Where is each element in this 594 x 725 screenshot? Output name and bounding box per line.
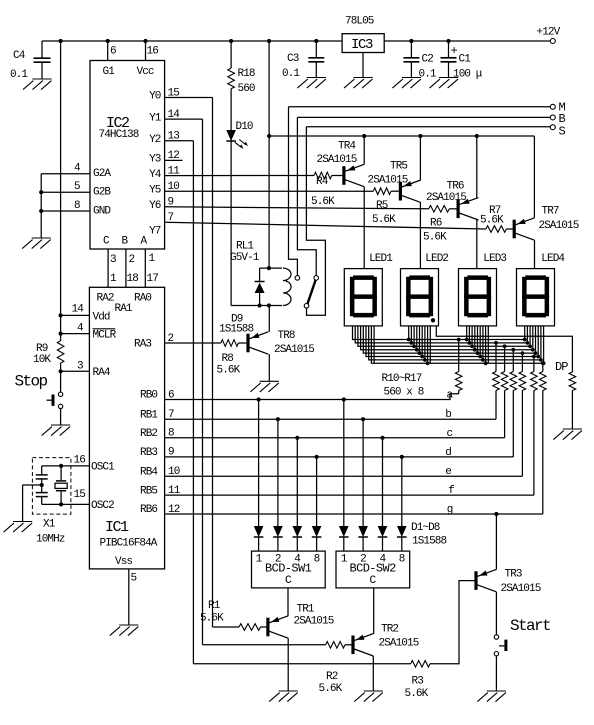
node TR6 emitter rail (475, 134, 479, 138)
wire +12V to relay coil (268, 41, 270, 268)
resistor R16 (g) 560 (540, 372, 547, 391)
capacitor C1 100u electrolytic (448, 41, 450, 58)
wire IC2B to RA1 (125, 249, 127, 287)
svg-text:74HC138: 74HC138 (99, 129, 139, 141)
node LED3 pin5 (476, 351, 480, 355)
wire RB5 segment line f (165, 494, 534, 496)
svg-text:16: 16 (74, 455, 86, 467)
svg-text:0.1: 0.1 (282, 68, 300, 80)
wire segment bus line 6 (366, 326, 538, 357)
wire segment bus line 7 (369, 326, 541, 360)
svg-text:5: 5 (131, 573, 137, 585)
wire TR1 collector (287, 638, 289, 691)
wire B drop (297, 117, 316, 275)
svg-text:RB1: RB1 (140, 409, 158, 421)
wire Y1 pin14 (165, 118, 203, 120)
svg-text:D1~D8: D1~D8 (411, 522, 440, 534)
svg-text:RB2: RB2 (140, 428, 157, 440)
node LED2 pin4 (415, 348, 419, 352)
svg-text:R18: R18 (238, 68, 255, 80)
wire R15 column upper (533, 357, 535, 372)
node LED2 pin7 (423, 358, 427, 362)
wire IC2C to RA2 (107, 249, 109, 287)
node D4 tap (315, 455, 319, 459)
wire D6 column (362, 419, 364, 526)
node D8 tap (400, 455, 404, 459)
display LED1 7-segment (344, 269, 382, 326)
transistor TR3 2SA1015 (474, 571, 477, 590)
wire IC2A to RA0 (144, 249, 146, 287)
svg-text:100 μ: 100 μ (453, 69, 483, 81)
svg-text:18: 18 (127, 273, 139, 285)
display LED4 7-segment (517, 269, 555, 326)
node rail-C3 (314, 39, 318, 43)
wire R8 to TR8 (238, 342, 246, 344)
wire R13 column lower (512, 391, 514, 457)
switch Stop (58, 392, 62, 396)
node osc caps mid (40, 483, 44, 487)
wire rail to TR7 emitter (533, 136, 535, 218)
wire R12 column lower (504, 391, 506, 438)
svg-text:G5V-1: G5V-1 (230, 252, 260, 264)
svg-text:LED2: LED2 (425, 253, 448, 265)
svg-text:G2B: G2B (93, 187, 111, 199)
svg-text:D10: D10 (236, 121, 253, 133)
wire TR4 collector to LED1 (363, 187, 365, 269)
svg-text:R2: R2 (326, 671, 338, 683)
node rail-A (59, 39, 63, 43)
wire D6 to switch (362, 537, 364, 551)
node LED4 pin5 (534, 351, 538, 355)
wire D2 to switch (277, 537, 279, 551)
wire segment bus line 1 (353, 326, 525, 340)
diode D4 1S1588 (312, 526, 322, 537)
wire R6 to TR6 (449, 208, 456, 210)
ground (IC2 enables) (22, 238, 51, 249)
node LED3 pin3 (470, 344, 474, 348)
wire R5 to TR5 (391, 190, 399, 192)
resistor R10 (a) 560 (455, 372, 462, 391)
wire R10 column upper (458, 340, 460, 372)
wire R2 line (203, 644, 326, 646)
svg-text:0.1: 0.1 (10, 69, 28, 81)
node GND (39, 209, 43, 213)
svg-text:TR3: TR3 (505, 568, 522, 580)
svg-text:8: 8 (74, 200, 80, 212)
svg-text:LED4: LED4 (541, 253, 565, 265)
svg-text:TR7: TR7 (542, 206, 559, 218)
svg-text:8: 8 (314, 554, 320, 566)
transistor TR6 2SA1015 (457, 200, 460, 219)
IC2 74HC138 body (90, 61, 165, 250)
node LED3 pin8 (484, 361, 488, 365)
svg-text:Y1: Y1 (149, 112, 162, 124)
resistor R3 5.6K (411, 661, 430, 668)
svg-text:10K: 10K (33, 354, 51, 366)
resistor R7 (486, 226, 507, 233)
svg-text:16: 16 (147, 46, 159, 58)
wire TR6 collector to LED3 (476, 220, 478, 269)
svg-text:BCD-SW2: BCD-SW2 (350, 561, 397, 575)
diode D10 LED (226, 130, 236, 141)
svg-text:+12V: +12V (537, 27, 561, 39)
svg-text:X1: X1 (43, 518, 56, 530)
ground (X1) (4, 522, 33, 533)
node LED2 pin1 (407, 338, 411, 342)
svg-text:2: 2 (129, 254, 135, 266)
svg-text:17: 17 (147, 273, 159, 285)
node rail-G1 (106, 39, 110, 43)
svg-text:RB0: RB0 (140, 390, 157, 402)
node LED3 pin7 (481, 358, 485, 362)
wire D7 to switch (382, 537, 384, 551)
wire Stop to ground (60, 409, 62, 425)
svg-text:R10~R17: R10~R17 (382, 373, 422, 385)
node D1 tap (257, 397, 261, 401)
ground (C3) (297, 78, 326, 89)
wire G2B (41, 191, 90, 193)
svg-text:TR5: TR5 (390, 161, 407, 173)
svg-text:2SA1015: 2SA1015 (274, 344, 314, 356)
resistor R18 560 (230, 41, 232, 68)
resistor R12 (c) 560 (501, 372, 508, 391)
terminal B (550, 115, 555, 120)
wire OSC1 (42, 465, 90, 467)
node LED4 pin3 (528, 344, 532, 348)
svg-text:5.6K: 5.6K (480, 215, 504, 227)
transistor TR1 2SA1015 (266, 618, 269, 637)
node D3 tap (295, 436, 299, 440)
wire LED3 pin2 drop (468, 326, 470, 343)
wire SW2 common (373, 588, 375, 634)
diode D1 1S1588 (254, 526, 264, 537)
wire R10 column lower (458, 391, 460, 394)
ground (Vss) (110, 625, 139, 636)
wire LED3 pin5 drop (477, 326, 479, 353)
capacitor osc lower (41, 485, 43, 493)
ground (TR8) (250, 381, 279, 392)
node g TR3 emitter (494, 512, 498, 516)
wire R14 column lower (521, 391, 523, 477)
svg-text:5.6K: 5.6K (372, 214, 396, 226)
wire TR2 collector (372, 656, 374, 691)
wire LED4 pin6 drop (537, 326, 539, 357)
diode D3 1S1588 (293, 526, 303, 537)
svg-text:Y6: Y6 (149, 200, 161, 212)
resistor R11 (b) 560 (493, 372, 500, 391)
IC1 PIC16F84A body (89, 287, 164, 569)
wire G2A (41, 173, 90, 175)
wire LED2 pin2 drop (410, 326, 412, 343)
wire Y5 pin10 to R5 (165, 190, 374, 192)
svg-text:RB5: RB5 (140, 485, 157, 497)
svg-text:5.6K: 5.6K (405, 688, 429, 700)
wire OSC2 (42, 503, 90, 505)
resistor R4 (314, 172, 332, 179)
wire LED2 pin8 drop (427, 326, 429, 363)
contact circle M (295, 276, 300, 281)
svg-text:+: + (451, 44, 458, 58)
wire R1 to TR1 (261, 626, 267, 628)
wire Y0 vertical (212, 98, 214, 628)
svg-text:f: f (448, 485, 454, 497)
svg-text:3: 3 (110, 254, 116, 266)
wire LED1 pin9 (373, 326, 375, 363)
regulator IC3 78L05 (342, 34, 384, 53)
svg-text:GND: GND (93, 205, 111, 217)
wire Vdd (61, 314, 90, 316)
node LED2 pin5 (418, 351, 422, 355)
wire Y3 stub pin12 (165, 159, 183, 161)
svg-text:e: e (445, 466, 451, 478)
wire LED2 pin4 drop (416, 326, 418, 350)
node coil bottom (267, 303, 271, 307)
wire LED3 pin4 drop (474, 326, 476, 350)
wire RA4 (61, 370, 90, 372)
svg-text:G1: G1 (103, 66, 116, 78)
node R14 e tap (521, 351, 525, 355)
wire LED4 pin2 drop (526, 326, 528, 343)
wire Y6 pin9 to R6 (165, 207, 429, 209)
svg-text:G2A: G2A (93, 168, 111, 180)
node LED3 pin4 (473, 348, 477, 352)
svg-text:g: g (447, 504, 453, 516)
svg-text:d: d (445, 447, 451, 459)
wire TR8 collector to ground (268, 354, 270, 381)
wire R11 column upper (495, 343, 497, 372)
switch Start (494, 635, 498, 639)
wire B line (297, 116, 550, 118)
wire S drop (306, 127, 325, 315)
svg-text:R3: R3 (412, 676, 424, 688)
wire D10 to relay frame (230, 140, 232, 306)
resistor R13 (d) 560 (510, 372, 517, 391)
svg-text:RB3: RB3 (140, 447, 157, 459)
svg-text:560 x 8: 560 x 8 (384, 387, 424, 399)
resistor R9 10K (57, 341, 64, 363)
svg-text:RB4: RB4 (140, 466, 158, 478)
svg-text:2SA1015: 2SA1015 (368, 174, 408, 186)
wire D4 to switch (316, 537, 318, 551)
crystal X1 box dashed (32, 458, 71, 514)
svg-text:TR1: TR1 (297, 604, 315, 616)
svg-text:OSC2: OSC2 (91, 500, 114, 512)
transistor TR2 2SA1015 (351, 636, 354, 655)
wire Vss pin5 (128, 569, 130, 625)
ground (C4) (23, 79, 52, 90)
svg-text:5.6K: 5.6K (311, 196, 335, 208)
svg-text:RL1: RL1 (236, 240, 254, 252)
LED D10 light arrows (235, 142, 242, 147)
wire segment bus line 5 (363, 326, 535, 353)
wire left vdd vertical (60, 41, 62, 341)
svg-text:10MHz: 10MHz (36, 533, 65, 545)
wire RB6 segment line g (165, 513, 543, 515)
svg-text:R8: R8 (222, 353, 234, 365)
svg-text:78L05: 78L05 (345, 16, 374, 28)
wire TR3 collector down (495, 592, 497, 635)
node crystal bottom (59, 502, 63, 506)
wire IC3 gnd pin (362, 53, 364, 78)
resistor R6 (429, 206, 450, 213)
wire LED4 pin7 drop (540, 326, 542, 360)
wire LED2 pin6 drop (421, 326, 423, 357)
wire osc gnd (23, 484, 42, 486)
svg-text:Y4: Y4 (149, 169, 162, 181)
node TR4 emitter rail (362, 134, 366, 138)
ground (TR1) (269, 691, 298, 702)
svg-text:2SA1015: 2SA1015 (539, 220, 579, 232)
svg-text:Start: Start (510, 617, 550, 635)
diode D2 1S1588 (273, 526, 283, 537)
wire IC2 pin16 Vcc (145, 41, 147, 61)
node R15 f tap (532, 355, 536, 359)
node D5 tap (342, 397, 346, 401)
svg-text:0.1: 0.1 (419, 69, 437, 81)
wire segment bus line 2 (355, 326, 527, 343)
wire Y1 vertical (202, 119, 204, 645)
wire D1 column (258, 400, 260, 527)
node G2B (39, 190, 43, 194)
wire D2 column (277, 419, 279, 526)
node R12 c tap (503, 344, 507, 348)
node Vdd (59, 313, 63, 317)
node LED4 pin4 (531, 348, 535, 352)
wire LED3 pin9 (487, 326, 489, 363)
wire DP to ground (571, 391, 573, 430)
capacitor osc upper (41, 466, 43, 475)
wire +12V top rail (right of IC3) (384, 40, 550, 42)
contact circle arm top (314, 276, 319, 281)
svg-text:6: 6 (110, 46, 116, 58)
diode D7 1S1588 (378, 526, 388, 537)
wire LED2 pin5 drop (419, 326, 421, 353)
switch BCD-SW1 body (252, 551, 326, 588)
wire SW1 common (287, 588, 289, 616)
display LED2 7-segment (401, 269, 439, 326)
transistor TR7 2SA1015 (513, 220, 516, 239)
wire D5 column (343, 400, 345, 527)
resistor R15 (f) 560 (531, 372, 538, 391)
node rail-C2 (409, 39, 413, 43)
terminal S (550, 125, 555, 130)
wire MCLR (61, 333, 90, 335)
svg-text:LED3: LED3 (483, 253, 506, 265)
svg-text:OSC1: OSC1 (91, 462, 115, 474)
svg-text:Y0: Y0 (149, 91, 161, 103)
node LED3 pin2 (468, 341, 472, 345)
wire D7 column (382, 438, 384, 526)
capacitor C3 (315, 41, 317, 58)
svg-text:15: 15 (74, 489, 86, 501)
svg-text:C3: C3 (287, 53, 299, 65)
wire LED3 pin6 drop (479, 326, 481, 357)
wire TR4 emitter up (363, 136, 365, 164)
wire R13 column upper (512, 350, 514, 372)
node D9 bottom (258, 303, 262, 307)
svg-text:5.6K: 5.6K (217, 365, 241, 377)
wire GND pin (41, 210, 90, 212)
svg-text:2SA1015: 2SA1015 (294, 616, 334, 628)
wire Y0 pin15 (165, 97, 213, 99)
wire R7 to TR7 (506, 228, 512, 230)
wire RB0 segment line a (165, 394, 459, 400)
node relay top (267, 266, 271, 270)
svg-text:2: 2 (168, 333, 174, 345)
node LED2 pin8 (426, 361, 430, 365)
wire Y7 pin7 to R7 (165, 222, 486, 229)
node LED4 pin1 (523, 338, 527, 342)
svg-text:R1: R1 (208, 600, 221, 612)
capacitor C2 (410, 41, 412, 58)
wire R9 to RA4 (60, 363, 62, 392)
wire segment bus line 8 (371, 326, 543, 363)
wire RB1 segment line b (165, 418, 496, 420)
terminal +12V (550, 39, 555, 44)
wire RB4 segment line e (165, 475, 523, 477)
wire TR3 emitter up (495, 514, 497, 570)
svg-text:R4: R4 (316, 176, 329, 188)
wire Y2 vertical (192, 141, 194, 664)
svg-text:RA4: RA4 (93, 367, 111, 379)
node RA4 (59, 369, 63, 373)
relay switch arm (308, 280, 316, 304)
svg-text:2SA1015: 2SA1015 (426, 192, 466, 204)
resistor R14 (e) 560 (519, 372, 526, 391)
wire Start to ground (495, 656, 497, 691)
resistor R17 DP 560 (569, 372, 576, 391)
contact circle common (304, 304, 309, 309)
svg-text:RA3: RA3 (134, 339, 151, 351)
wire LED2 pin9 (429, 326, 431, 363)
node LED2 pin6 (420, 355, 424, 359)
transistor TR5 2SA1015 (399, 182, 402, 201)
node LED4 pin6 (536, 355, 540, 359)
wire relay top (260, 267, 282, 269)
LED2 decimal point (431, 318, 435, 322)
wire LED2 pin1 drop (408, 326, 410, 340)
svg-text:RA1: RA1 (115, 303, 133, 315)
ground (Start) (477, 691, 506, 702)
ground (Stop) (42, 425, 71, 436)
svg-text:LED1: LED1 (369, 253, 393, 265)
wire LED3 pin3 drop (471, 326, 473, 346)
svg-text:5.6K: 5.6K (423, 232, 447, 244)
svg-text:C2: C2 (422, 54, 434, 66)
node LED4 pin8 (542, 361, 546, 365)
wire LED2 pin7 drop (424, 326, 426, 360)
wire Y2 pin13 (165, 140, 194, 142)
svg-text:R5: R5 (376, 200, 388, 212)
node LED2 pin2 (410, 341, 414, 345)
wire TR8 emitter to relay (268, 306, 270, 332)
wire TR5 collector to LED2 (419, 202, 421, 268)
node D6 tap (361, 417, 365, 421)
wire TR7 collector to LED4 (534, 240, 536, 268)
wire R3 to TR3 (430, 581, 474, 664)
node LED3 pin1 (465, 338, 469, 342)
svg-text:Y2: Y2 (149, 134, 161, 146)
terminal M (550, 104, 555, 109)
wire G2 tie vertical (40, 174, 42, 238)
wire S line (306, 126, 550, 128)
svg-text:TR6: TR6 (447, 180, 464, 192)
transistor TR4 2SA1015 (342, 166, 345, 185)
wire R18 to D10 (230, 89, 232, 130)
svg-text:3: 3 (77, 360, 83, 372)
wire R2 to TR2 (345, 644, 352, 646)
resistor R8 (221, 340, 238, 347)
